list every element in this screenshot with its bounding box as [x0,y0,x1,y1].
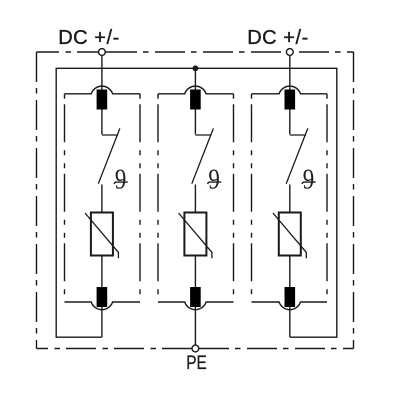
terminal contact bottom, module 3 [285,287,296,307]
wire: terminal to switch, module 2 [194,110,196,135]
module 3 box top edge with plug-in arc [252,86,328,94]
node: DC +/- input terminal 1 [99,49,106,56]
module 1 dashed box right side [139,94,141,302]
module 1 dashed box left side [64,94,66,302]
wire: bottom terminal to star bus, module 1 [101,307,103,337]
thermal symbol theta, module 3 [302,163,316,195]
wire: star point down to branch 2 [194,68,196,90]
svg-text:DC +/-: DC +/- [58,27,120,49]
module 3 box bottom edge with plug-in arc [252,302,328,310]
svg-text:DC +/-: DC +/- [247,27,309,49]
terminal contact top, module 1 [97,90,108,110]
module 1 box bottom edge with plug-in arc [65,302,141,310]
wire: varistor to bottom terminal, module 1 [101,256,103,289]
wire: common star-point bus (left drop, top bus, right drop, bottom links) [56,68,337,337]
node: star point junction [193,65,199,71]
terminal contact bottom, module 1 [97,287,108,307]
wire: terminal to switch, module 1 [101,110,103,135]
wire: switch to varistor, module 3 [289,185,291,213]
varistor, module 1 [91,213,113,256]
thermal disconnect switch, module 3 [290,134,306,136]
wire: terminal to switch, module 3 [289,110,291,135]
svg-text:PE: PE [186,353,207,374]
thermal symbol theta, module 2 [208,163,222,195]
module 1 box top edge with plug-in arc [65,86,141,94]
svg-text:9: 9 [303,163,314,195]
wire: switch to varistor, module 1 [101,185,103,213]
node: PE terminal [192,345,199,352]
module 3 dashed box left side [251,94,253,302]
module 3 dashed box right side [326,94,328,302]
wire: DC terminal 2 down to branch 3 [289,56,291,91]
wire: switch to varistor, module 2 [194,185,196,213]
module 2 box bottom edge with plug-in arc [158,302,234,310]
wire: varistor to bottom terminal, module 2 [194,256,196,289]
thermal symbol theta, module 1 [114,163,128,195]
terminal contact top, module 3 [285,90,296,110]
wire: bottom terminal to PE, module 2 [194,307,196,345]
thermal disconnect switch, module 1 [102,134,118,136]
module 2 dashed box right side [233,94,235,302]
svg-text:9: 9 [208,163,219,195]
module 2 dashed box left side [157,94,159,302]
varistor, module 3 [279,213,301,256]
node: DC +/- input terminal 2 [286,49,293,56]
varistor, module 2 [184,213,206,256]
module 2 box top edge with plug-in arc [158,86,234,94]
terminal contact bottom, module 2 [190,287,201,307]
thermal disconnect switch, module 2 [195,134,211,136]
wire: bottom terminal to star bus, module 3 [289,307,291,337]
svg-text:9: 9 [115,163,126,195]
outer enclosure dash-dot border [37,52,354,349]
terminal contact top, module 2 [190,90,201,110]
wire: DC terminal 1 down to branch 1 [101,56,103,91]
wire: varistor to bottom terminal, module 3 [289,256,291,289]
